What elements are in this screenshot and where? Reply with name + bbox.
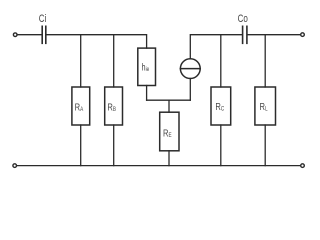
output terminal (top-right) xyxy=(301,33,305,37)
wire Ci to h_ie corner (top rail left) xyxy=(47,35,147,48)
wire node to RL top xyxy=(264,35,266,87)
svg-text:Co: Co xyxy=(238,13,248,26)
wire RC bottom xyxy=(220,125,222,166)
wire RB bottom xyxy=(113,125,115,166)
wire node to RC top xyxy=(220,35,222,87)
input terminal (top-left) xyxy=(13,33,17,37)
resistor RC box xyxy=(211,87,231,125)
wire input to Ci xyxy=(18,34,42,36)
resistor RA box xyxy=(72,87,90,125)
wire RL bottom xyxy=(264,125,266,166)
wire Co to output terminal xyxy=(248,34,300,36)
bottom rail wire xyxy=(17,165,299,167)
ground terminal (bottom-left) xyxy=(13,164,17,168)
h-parameter resistance h_ie box (U1) xyxy=(138,48,156,85)
resistor RE box xyxy=(160,112,179,151)
wire RE bottom xyxy=(168,151,170,166)
wire node to RA top xyxy=(80,35,82,87)
wire RA bottom xyxy=(80,125,82,166)
wire node to RB top xyxy=(113,35,115,87)
capacitor C2 "Co" plates xyxy=(243,26,247,43)
wire node to RE top xyxy=(168,100,170,112)
capacitor C1 "Ci" plates xyxy=(42,26,46,43)
resistor RB box xyxy=(105,87,123,125)
wire current source top to top rail right xyxy=(190,35,242,59)
ground terminal (bottom-right) xyxy=(301,164,305,168)
current source I1 (circle with bar) xyxy=(180,59,200,79)
wire h_ie bottom to link xyxy=(146,86,148,101)
wire link h_ie to current source bottom xyxy=(147,99,191,101)
wire current source bottom stub xyxy=(189,79,191,101)
resistor RL box xyxy=(255,87,276,125)
svg-text:Ci: Ci xyxy=(39,13,47,26)
